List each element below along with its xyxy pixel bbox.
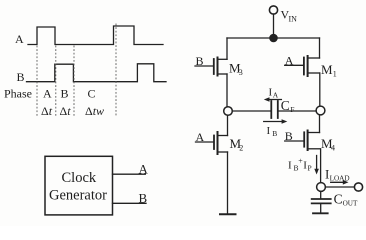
svg-text:C: C bbox=[281, 98, 290, 113]
svg-text:4: 4 bbox=[331, 144, 335, 153]
current arrow IB+IP bbox=[314, 156, 319, 175]
output wire bbox=[325, 186, 354, 188]
svg-text:Phase: Phase bbox=[4, 87, 32, 101]
signal label B bbox=[17, 70, 25, 84]
svg-text:LOAD: LOAD bbox=[330, 174, 350, 182]
svg-text:OUT: OUT bbox=[343, 199, 358, 207]
phase boundary dotted line 2 bbox=[55, 46, 57, 117]
svg-text:B: B bbox=[285, 129, 293, 143]
svg-text:Δt: Δt bbox=[60, 104, 72, 118]
output terminal circle bbox=[354, 183, 362, 191]
M1 label bbox=[321, 62, 337, 78]
clock output label B bbox=[139, 191, 148, 206]
CF label bbox=[281, 98, 295, 114]
svg-text:I: I bbox=[288, 160, 292, 172]
COUT wire to ground bbox=[320, 204, 322, 212]
svg-text:B: B bbox=[17, 70, 25, 84]
M1 gate label A bbox=[285, 53, 294, 67]
COUT label bbox=[334, 192, 358, 208]
svg-text:3: 3 bbox=[239, 68, 243, 77]
svg-text:IN: IN bbox=[289, 14, 298, 23]
IA label bbox=[269, 87, 279, 100]
waveform B bbox=[27, 64, 167, 82]
capacitor CF plates bbox=[270, 101, 272, 118]
VIN label bbox=[281, 8, 298, 24]
transistor M3 bbox=[195, 38, 227, 107]
svg-text:A: A bbox=[43, 87, 52, 101]
waveform A bbox=[28, 26, 163, 45]
IB label bbox=[267, 125, 278, 138]
junction dot VIN/rail bbox=[269, 34, 278, 43]
phase boundary dotted line 4 bbox=[115, 24, 117, 117]
svg-text:C: C bbox=[334, 192, 343, 207]
phase boundary dotted line 3 bbox=[73, 46, 75, 117]
M3 gate label B bbox=[196, 54, 204, 68]
capacitor COUT bottom plate bbox=[312, 202, 331, 204]
svg-text:2: 2 bbox=[239, 144, 243, 153]
middle wire right of CF bbox=[279, 110, 316, 112]
left node circle bbox=[224, 107, 233, 116]
IB+IP label bbox=[288, 157, 312, 173]
ILOAD arrow bbox=[331, 180, 349, 185]
svg-text:Δt: Δt bbox=[41, 104, 53, 118]
clock generator box bbox=[45, 156, 113, 215]
M3 label bbox=[229, 60, 243, 77]
VIN terminal circle bbox=[269, 6, 277, 14]
M2 gate label A bbox=[196, 130, 205, 144]
svg-text:B: B bbox=[139, 191, 148, 206]
svg-text:A: A bbox=[139, 161, 149, 176]
svg-text:1: 1 bbox=[333, 69, 337, 78]
svg-text:Generator: Generator bbox=[49, 188, 107, 204]
svg-text:B: B bbox=[272, 129, 277, 138]
clock output label A bbox=[139, 161, 149, 176]
svg-text:A: A bbox=[15, 32, 24, 46]
M2 label bbox=[230, 136, 244, 153]
svg-text:C: C bbox=[88, 87, 96, 101]
clock output wire A bbox=[113, 173, 146, 175]
M4 gate label B bbox=[285, 129, 293, 143]
phase row labels bbox=[4, 87, 96, 101]
capacitor COUT top plate bbox=[312, 198, 331, 200]
phase duration labels bbox=[41, 104, 104, 118]
middle wire left of CF bbox=[232, 110, 270, 112]
clock output wire B bbox=[113, 202, 147, 204]
svg-text:F: F bbox=[290, 105, 294, 114]
signal label A bbox=[15, 32, 24, 46]
svg-text:I: I bbox=[267, 125, 271, 137]
right node circle bbox=[316, 106, 325, 115]
transistor M4 bbox=[285, 115, 321, 183]
svg-text:A: A bbox=[196, 130, 205, 144]
ground below M2 bbox=[220, 213, 236, 215]
COUT wire from node bbox=[320, 191, 322, 198]
ILOAD label bbox=[325, 166, 350, 182]
phase boundary dotted line 1 bbox=[36, 46, 38, 117]
output node circle bbox=[317, 183, 326, 192]
svg-text:B: B bbox=[196, 54, 204, 68]
top rail wire bbox=[227, 37, 320, 39]
M4 label bbox=[321, 136, 335, 153]
wire VIN to rail bbox=[273, 14, 275, 34]
current arrow IB bbox=[264, 119, 288, 124]
svg-text:A: A bbox=[285, 53, 294, 67]
svg-text:A: A bbox=[273, 91, 279, 100]
svg-text:Δtw: Δtw bbox=[85, 104, 104, 118]
ground below COUT bbox=[313, 212, 328, 214]
svg-text:M: M bbox=[321, 62, 333, 77]
current arrow IA bbox=[264, 97, 282, 102]
svg-text:Clock: Clock bbox=[62, 170, 97, 186]
transistor M2 bbox=[196, 115, 228, 214]
svg-text:P: P bbox=[308, 164, 312, 173]
transistor M1 bbox=[285, 38, 320, 106]
svg-text:B: B bbox=[61, 87, 69, 101]
